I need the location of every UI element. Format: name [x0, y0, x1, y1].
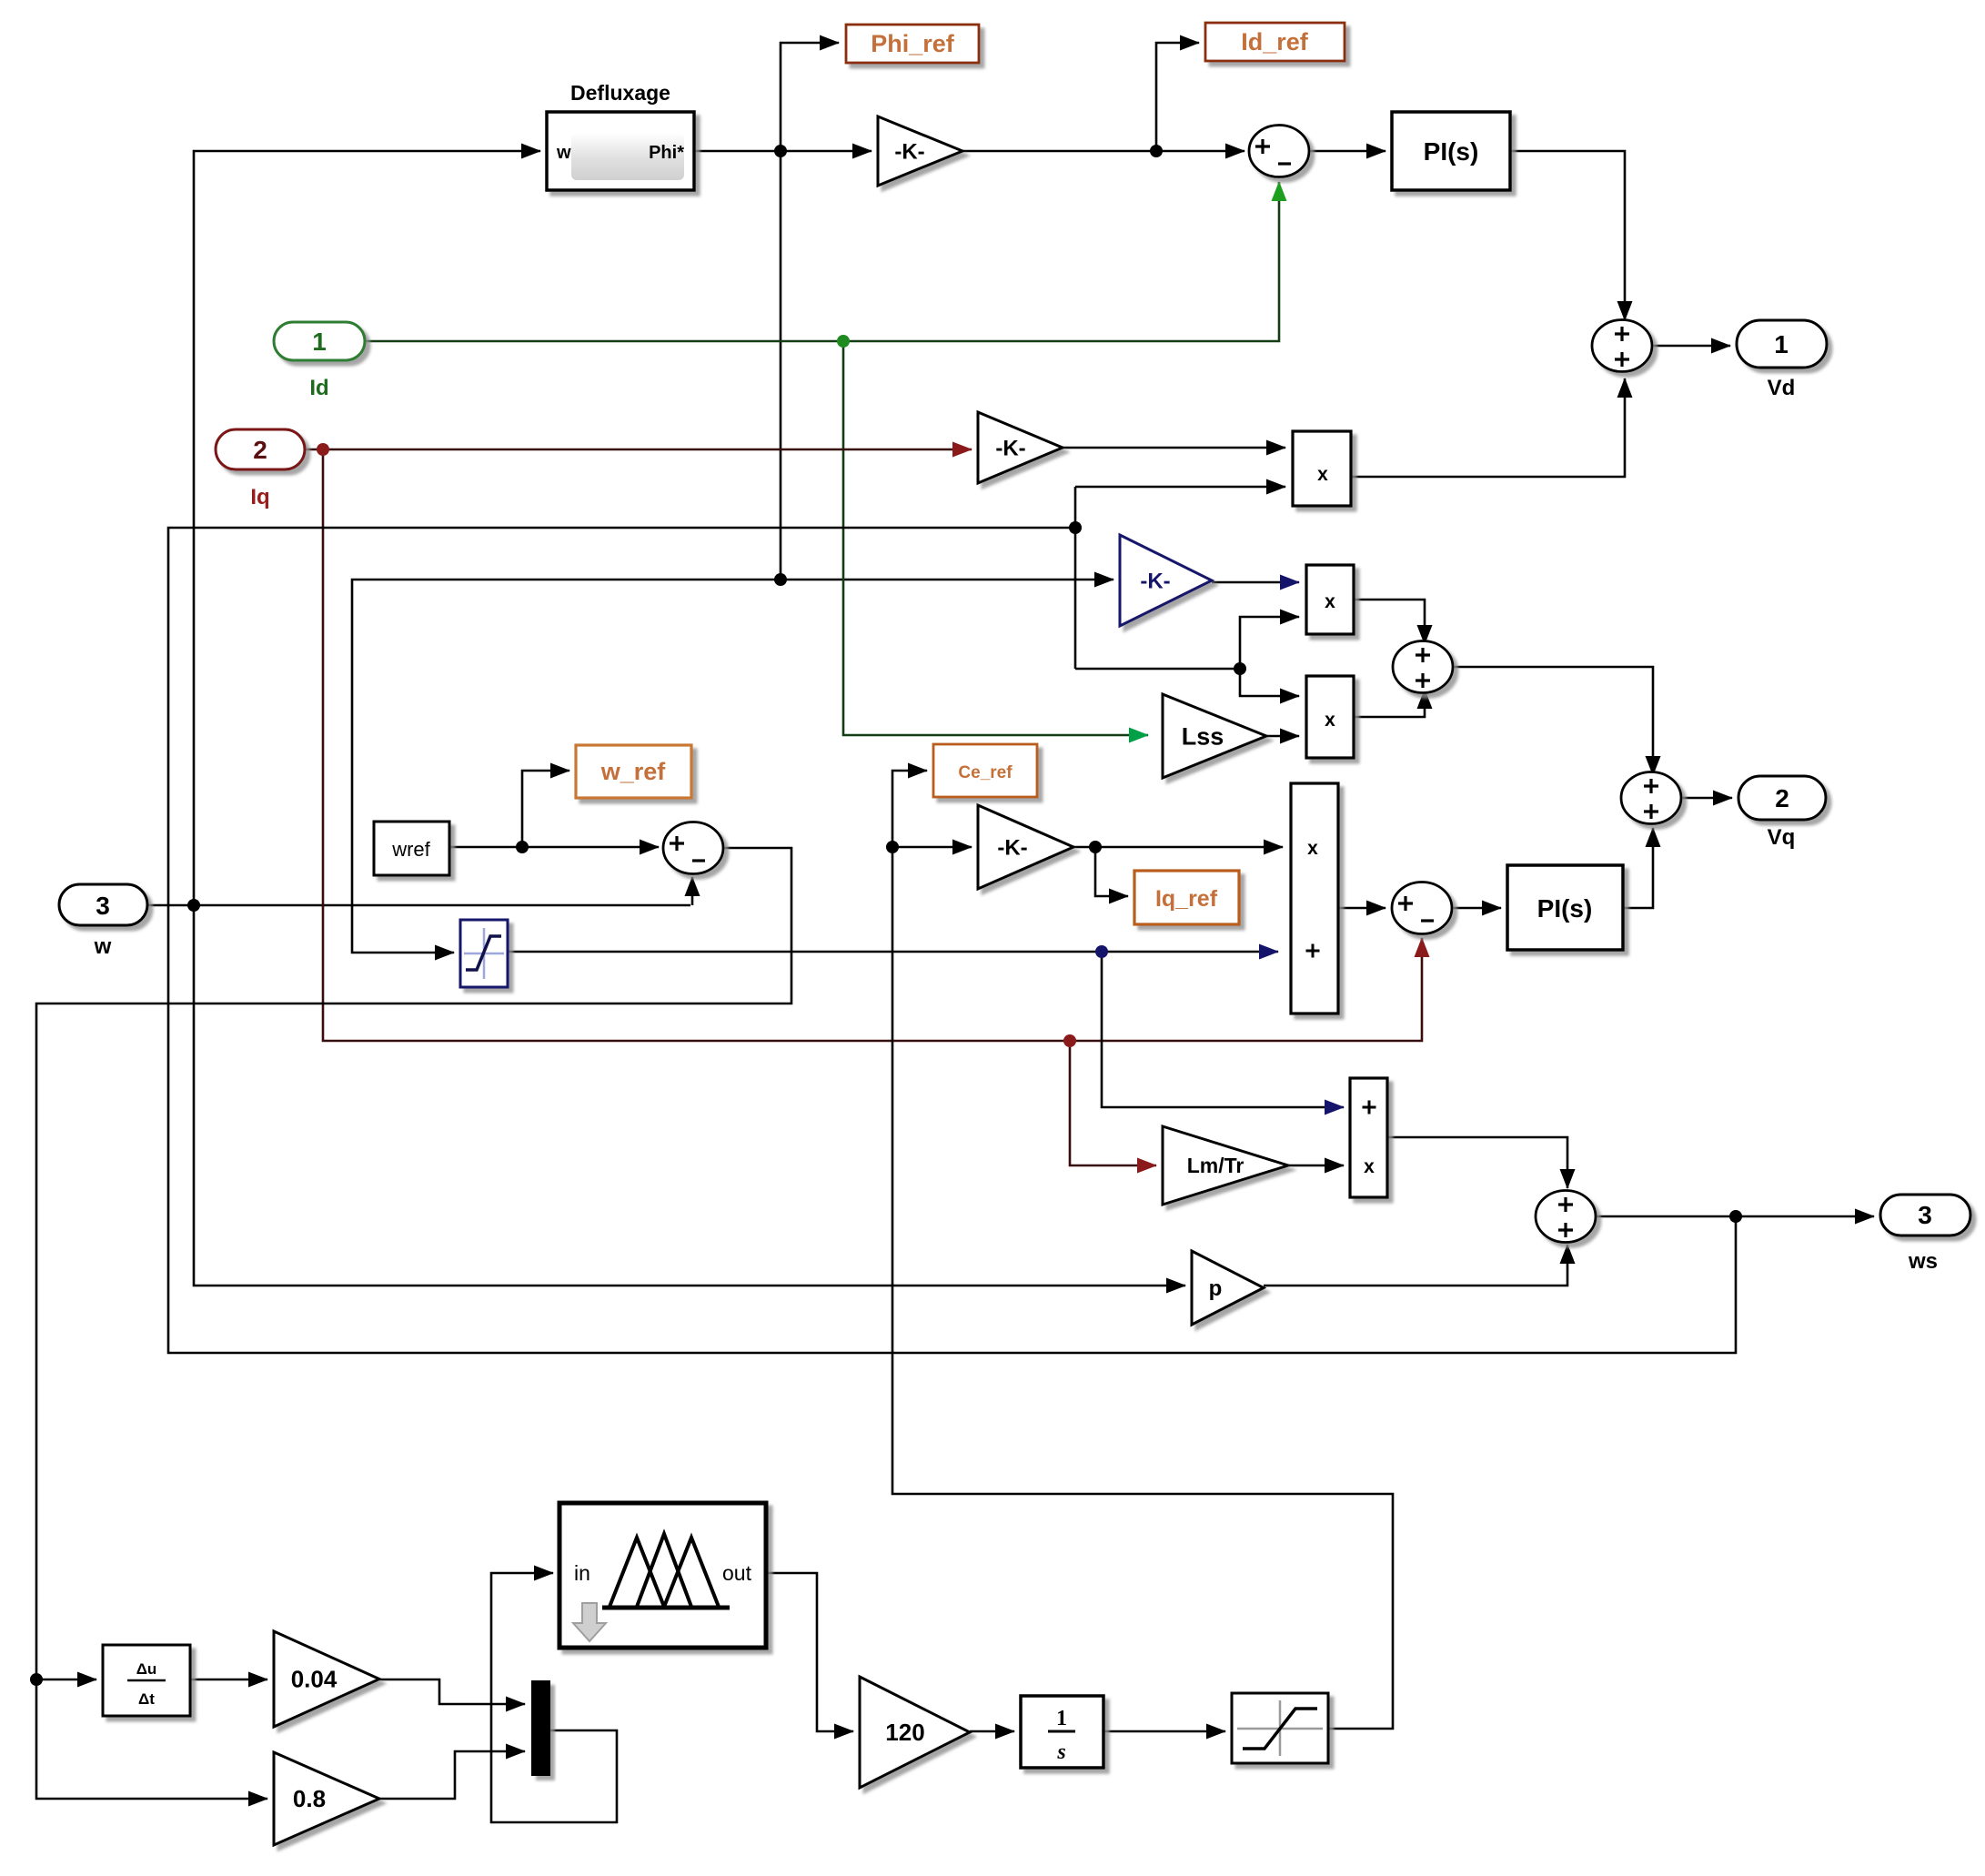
svg-text:-K-: -K- [1140, 569, 1170, 593]
svg-text:x: x [1307, 838, 1318, 859]
svg-text:3: 3 [96, 892, 110, 920]
svg-text:Lss: Lss [1182, 722, 1224, 750]
svg-text:2: 2 [1775, 784, 1789, 812]
svg-text:PI(s): PI(s) [1424, 137, 1479, 166]
svg-text:x: x [1325, 710, 1335, 731]
svg-text:3: 3 [1918, 1201, 1932, 1229]
svg-text:Δt: Δt [138, 1690, 155, 1708]
svg-text:w: w [556, 143, 571, 163]
svg-text:2: 2 [253, 436, 267, 464]
svg-text:-K-: -K- [997, 835, 1027, 860]
svg-text:-K-: -K- [995, 436, 1025, 460]
svg-text:1: 1 [312, 328, 327, 356]
svg-text:x: x [1364, 1156, 1375, 1177]
svg-text:out: out [722, 1561, 752, 1585]
svg-text:0.8: 0.8 [293, 1785, 326, 1812]
svg-text:Lm/Tr: Lm/Tr [1187, 1154, 1244, 1177]
svg-text:w_ref: w_ref [600, 758, 667, 785]
svg-text:Vd: Vd [1768, 376, 1796, 400]
svg-text:0.04: 0.04 [291, 1666, 338, 1693]
svg-text:120: 120 [885, 1719, 924, 1746]
svg-text:s: s [1056, 1740, 1065, 1764]
svg-text:wref: wref [391, 838, 430, 861]
svg-text:Ce_ref: Ce_ref [958, 763, 1013, 782]
svg-text:Vq: Vq [1768, 825, 1796, 850]
svg-text:-K-: -K- [894, 139, 924, 164]
svg-text:Phi_ref: Phi_ref [871, 30, 955, 57]
svg-text:PI(s): PI(s) [1537, 894, 1593, 923]
svg-text:Id_ref: Id_ref [1241, 28, 1309, 55]
svg-text:1: 1 [1056, 1707, 1067, 1730]
svg-text:Defluxage: Defluxage [570, 81, 670, 105]
svg-text:Δu: Δu [136, 1660, 157, 1678]
svg-text:in: in [574, 1561, 590, 1585]
svg-text:x: x [1317, 464, 1328, 485]
svg-text:w: w [94, 934, 112, 959]
svg-text:Iq: Iq [250, 485, 269, 509]
svg-text:ws: ws [1908, 1249, 1938, 1274]
svg-text:Iq_ref: Iq_ref [1155, 886, 1218, 912]
svg-text:1: 1 [1774, 330, 1789, 358]
svg-text:p: p [1209, 1276, 1223, 1301]
svg-text:Id: Id [309, 376, 328, 400]
svg-text:Phi*: Phi* [649, 143, 684, 163]
svg-text:x: x [1325, 591, 1335, 612]
